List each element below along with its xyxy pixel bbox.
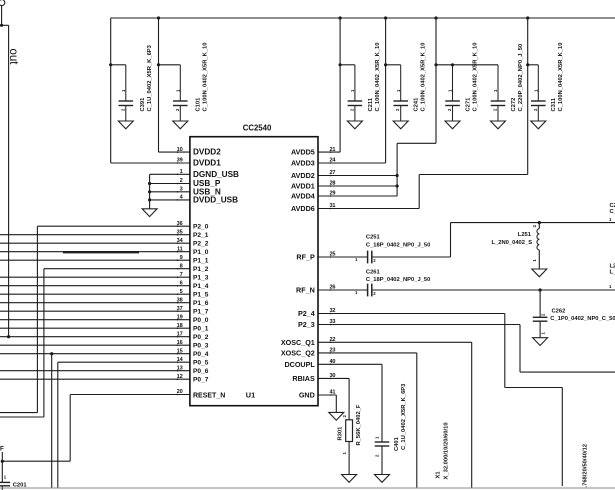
wire R301 bottom lead [348,442,350,475]
svg-text:P2_2: P2_2 [193,241,209,248]
pin names right group [281,148,316,400]
svg-text:R_56K_0402_F: R_56K_0402_F [356,404,362,445]
wire DVDD2 to pin 10 [159,151,191,153]
wire C401 bottom lead [381,446,383,475]
svg-text:C201: C201 [13,482,28,488]
wire P2_2 pin 34 [0,242,190,244]
wire net out vertical x=8.6 [8,25,10,336]
label C252 partial right edge [609,203,615,222]
pin numbers right [330,147,337,396]
wire out terminal horizontal y=25.3 [0,24,9,26]
wire P1_0 pin 11 [0,251,190,253]
wire P2_1 pin 35 [0,234,190,236]
wire P0_4 vertical x=51.7 [51,354,53,488]
wire C201 bottom lead [1,486,3,490]
svg-text:P0_7: P0_7 [193,377,209,384]
svg-text:C_1P0_0402_NP0_C_50: C_1P0_0402_NP0_C_50 [550,316,615,322]
ground C401 [375,475,390,483]
svg-text:C262: C262 [552,308,566,314]
capacitor C261 [355,269,430,296]
svg-text:U1: U1 [246,390,255,399]
wire P2_0 vertical x=37.4 [36,226,38,412]
wire P2_0 pin 36 [37,225,190,227]
svg-text:5: 5 [180,289,183,295]
svg-text:P0_3: P0_3 [193,343,209,350]
junction dot out terminal [0,24,3,27]
svg-text:C_100N_0402_X5R_K_10: C_100N_0402_X5R_K_10 [472,43,478,112]
svg-text:C_220P_0402_NP0_J_50: C_220P_0402_NP0_J_50 [518,44,524,112]
capacitor C241 [393,43,426,129]
svg-text:DVDD2: DVDD2 [193,148,221,157]
wire P0_1 pin 18 [0,327,190,329]
wire P0_3 pin 16 [0,344,190,346]
svg-text:DGND_USB: DGND_USB [193,170,239,179]
op-amp U1 CC2540 box [190,137,318,406]
wire P2_3 pin 33 [318,324,520,326]
capacitor C271 [445,43,478,129]
capacitor C311 [531,43,564,129]
svg-text:P0_5: P0_5 [193,360,209,367]
wire USB_N pin 3 [150,191,190,193]
wire P2_3 horizontal y=372.1 [520,371,615,373]
svg-text:C101: C101 [196,97,202,112]
svg-text:.768/20/50/40/12: .768/20/50/40/12 [583,444,589,488]
svg-text:C_1U_0402_X5R_K_6P3: C_1U_0402_X5R_K_6P3 [147,44,153,111]
wire RESET_N bottom y=461.2 [2,460,70,462]
svg-text:C_1U_0402_X5R_K_6P3: C_1U_0402_X5R_K_6P3 [401,383,407,450]
wire vertical AVDD5 drop x=340.1 [339,18,341,152]
wire RESET_N pin 20 [70,394,190,396]
wire C262 bottom lead [539,321,541,338]
wire RF_P pin 25 stub [318,256,368,258]
capacitor C251 [355,235,430,264]
wire DCOUPL vertical x=382 [381,364,383,442]
capacitor C211 [347,43,380,129]
wire L251 top lead [538,223,540,229]
junction dot out to P0_2 [7,335,10,338]
wire P1_0 thick overlay [63,251,139,253]
wire AVDD6 horizontal y=174.5 [419,174,528,176]
wire GND vertical x=336.3 [335,395,337,412]
svg-text:GND: GND [299,391,315,400]
svg-text:C_18P: C_18P [610,209,615,215]
svg-text:C251: C251 [366,235,381,241]
wire branch C271 C272 [436,64,498,66]
svg-text:L_2N0_0402_S: L_2N0_0402_S [491,240,532,246]
wire P1_5 pin 5 [0,293,190,295]
svg-text:P1_3: P1_3 [193,275,209,282]
svg-text:9: 9 [180,255,183,261]
svg-text:RBIAS: RBIAS [292,374,315,383]
wire AVDD2 pin 27 stub [318,175,397,177]
wire AVDD bus top [111,17,615,19]
svg-text:C_18P_0402_NP0_J_50: C_18P_0402_NP0_J_50 [366,277,430,283]
junction dot L251 tap [538,221,541,224]
capacitor C401 [374,383,407,457]
wire P0_5 pin 14 [58,361,190,363]
wire P0_7 pin 12 [0,378,190,380]
wire P1_2 vertical x=43.9 [43,269,45,417]
pin numbers left [177,147,184,395]
wire DVDD_USB pin 4 [150,199,190,201]
wire AVDD3 pin 24 stub [318,162,386,164]
svg-text:C311: C311 [551,97,557,111]
svg-text:P0_4: P0_4 [193,351,209,358]
wire RF_N after C261 [372,289,615,291]
wire L251 bottom lead [538,250,540,269]
wire branch C241 [386,64,401,66]
svg-text:AVDD5: AVDD5 [291,148,315,157]
crystal X1 labels [435,422,449,479]
capacitor C262 [533,308,615,334]
wire RF_P after C251 [372,256,451,258]
svg-text:P0_0: P0_0 [193,317,209,324]
wire RBIAS pin 30 [318,377,349,379]
svg-text:XOSC_Q2: XOSC_Q2 [281,349,315,358]
wire XOSC_Q1 pin 22 [318,341,472,343]
wire XOSC_Q1 vertical x=471.7 [471,342,473,488]
junction dots AVDD pins [396,174,399,188]
svg-text:2: 2 [180,178,183,184]
node pin end markers left [177,151,179,395]
svg-text:C261: C261 [366,269,381,275]
svg-text:P2_3: P2_3 [298,320,315,329]
svg-text:P0_1: P0_1 [193,326,209,333]
wire DVDD1 to pin 39 [111,162,190,164]
wire RF_P top y=222.6 [451,222,615,224]
wire P0_2 pin 17 [0,336,190,338]
inductor L251 [491,224,539,261]
wire P0_0 pin 19 [0,319,190,321]
svg-text:RESET_N: RESET_N [193,392,225,399]
label L252 partial right edge [609,264,615,290]
wire USB pins vertical x=149.6 [149,174,151,209]
wire AVDD2 horizontal jog y=143.3 [397,142,436,144]
svg-text:XOSC_Q1: XOSC_Q1 [281,338,315,347]
wire GND pin 41 stub [318,394,336,396]
wire P2_4 vertical x=504.8 [504,314,506,388]
svg-text:P2_0: P2_0 [193,224,209,231]
wire branch C211 [340,64,355,66]
wire P2_4 pin 32 [318,313,505,315]
svg-text:P1_2: P1_2 [193,266,209,273]
wire vertical DVDD1 drop x=110.7 [110,18,112,163]
junction dot C262 tap [539,288,542,291]
svg-text:R301: R301 [338,426,344,441]
svg-text:8: 8 [180,263,183,269]
svg-text:L251: L251 [518,232,532,238]
svg-text:P1_6: P1_6 [193,300,209,307]
wire P2_4 vertical x=562.3 [561,388,563,487]
svg-text:P2_1: P2_1 [193,232,209,239]
svg-text:L_2N: L_2N [610,270,615,276]
wire RF_N pin 26 stub [318,289,368,291]
capacitor C391 [118,44,153,128]
wire XOSC_Q2 vertical x=416.8 [416,353,418,488]
wire P1_1 pin 9 [0,259,190,261]
wire P1_3 pin 7 [0,276,190,278]
wire P1_7 pin 37 [0,310,190,312]
wire P1_2 bottom y=417 [0,416,44,418]
svg-text:P0_6: P0_6 [193,368,209,375]
svg-text:RF_P: RF_P [296,253,315,262]
wire terminal vertical x=1.6 [1,6,3,26]
wire P1_2 pin 8 [44,268,190,270]
wire branch C101 [159,64,181,66]
junction dot P0_4 branch [50,352,53,355]
wire branch C391 [111,64,126,66]
svg-text:6: 6 [180,280,183,286]
junction dot RESET bottom [1,460,4,463]
svg-text:C211: C211 [368,97,374,111]
svg-text:X_32.000/10/20/60/10: X_32.000/10/20/60/10 [444,422,450,479]
bottom frame line [0,487,615,489]
wire AVDD5 pin 21 stub [318,151,340,153]
wire P1_4 pin 6 [0,285,190,287]
wire vertical AVDD2 drop x=436 [435,18,437,143]
terminal circle out [0,0,5,6]
svg-text:C_18P_0402_NP0_J_50: C_18P_0402_NP0_J_50 [366,243,430,249]
svg-text:C272: C272 [511,98,517,112]
svg-text:P2_4: P2_4 [298,309,315,318]
wire P2_0 bottom y=412.6 [0,412,37,414]
svg-text:7: 7 [180,272,183,278]
svg-text:P0_2: P0_2 [193,334,209,341]
junction dots cap branch row [109,63,529,66]
svg-text:DVDD1: DVDD1 [193,159,221,168]
svg-text:P1_5: P1_5 [193,292,209,299]
wire P0_4 pin 15 [0,353,190,355]
junction dots AVDD bus [157,16,529,19]
svg-text:AVDD3: AVDD3 [291,159,315,168]
wire left component lead x=2.3 [1,452,3,482]
wire C262 top lead [539,290,541,317]
wire AVDD6 pin 31 stub [318,208,419,210]
wire AVDD6 vertical x=419.2 [418,175,420,209]
wire DCOUPL pin 40 [318,363,382,365]
svg-text:C241: C241 [414,97,420,112]
svg-text:AVDD2: AVDD2 [291,171,315,180]
junction dots USB ground [148,182,151,202]
ground GND pin [329,412,344,420]
wire AVDD1 pin 28 stub [318,185,397,187]
svg-text:RF_N: RF_N [296,286,315,295]
wire RBIAS vertical x=349.1 [348,378,350,419]
wire XOSC_Q2 pin 23 [318,352,417,354]
ground USB [142,209,157,217]
svg-text:AVDD6: AVDD6 [291,204,315,213]
ground C262 [533,338,548,346]
svg-text:P1_1: P1_1 [193,258,209,265]
wire vertical DVDD2 drop x=158.5 [158,18,160,152]
svg-text:out: out [7,49,19,66]
wire branch C311 [528,64,539,66]
wire DGND_USB pin 1 [150,173,190,175]
wire P2_4 horizontal y=387.5 [505,387,563,389]
wire P0_6 pin 13 [0,370,190,372]
svg-text:3: 3 [180,187,183,193]
svg-text:P1_4: P1_4 [193,283,209,290]
pin names left group USB [193,148,239,205]
svg-text:DCOUPL: DCOUPL [284,360,315,369]
wire P0_5 vertical x=57.8 [57,362,59,488]
svg-text:C_100N_0402_X5R_K_10: C_100N_0402_X5R_K_10 [421,43,427,112]
capacitor C101 [173,43,209,129]
wire P1_6 pin 38 [0,302,190,304]
svg-text:AVDD4: AVDD4 [291,192,315,201]
svg-text:C_100N_0402_X5R_K_10: C_100N_0402_X5R_K_10 [558,43,564,112]
svg-text:X1: X1 [435,471,441,479]
svg-text:CC2540: CC2540 [243,124,272,133]
svg-text:C_100N_0402_X5R_K_10: C_100N_0402_X5R_K_10 [375,43,381,112]
wire vertical AVDD6 drop x=527.7 [527,18,529,175]
wire P2_3 vertical x=520 [519,325,521,373]
wire USB_P pin 2 [150,183,190,185]
wire AVDD4 pin 29 stub [318,195,397,197]
capacitor C272 [491,44,524,129]
node pin end markers right [330,151,332,396]
capacitor C201 [0,475,27,489]
wire RF_P vertical x=450.5 [450,223,452,257]
svg-text:C_100N_0402_X5R_K_10: C_100N_0402_X5R_K_10 [203,43,209,112]
resistor R301 [338,404,363,454]
svg-text:P1_0: P1_0 [193,249,209,256]
svg-text:C401: C401 [394,436,400,451]
wire AVDD2/1/4 vertical x=397.1 [396,143,398,196]
svg-text:P1_7: P1_7 [193,309,209,316]
svg-text:C391: C391 [140,97,146,112]
ground L251 [532,269,547,277]
wire RESET_N vertical x=70.2 [69,395,71,462]
svg-text:DVDD_USB: DVDD_USB [193,196,238,205]
svg-text:AVDD1: AVDD1 [291,182,315,191]
svg-text:C271: C271 [465,97,471,112]
ground R301 [342,475,357,483]
svg-text:F: F [0,446,4,453]
pin names left group ports [193,224,209,384]
svg-text:1: 1 [180,169,183,175]
wire vertical AVDD3 drop x=385.6 [385,18,387,163]
